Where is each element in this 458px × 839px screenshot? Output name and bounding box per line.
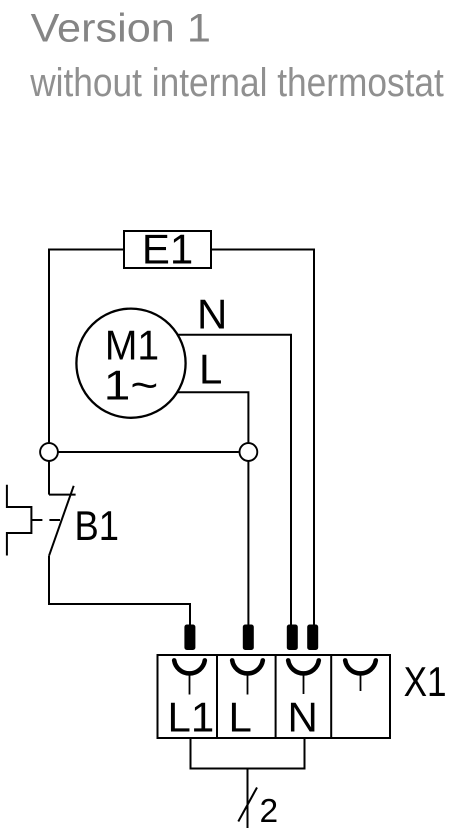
wire: bottom horizontal bbox=[190, 768, 306, 770]
svg-text:L: L bbox=[229, 694, 252, 741]
wire: cable down to edge bbox=[247, 769, 249, 829]
pin into N (from E1) bbox=[307, 625, 318, 651]
svg-text:L1: L1 bbox=[168, 694, 215, 741]
wire: motor L horizontal and down to right junction bbox=[176, 392, 248, 442]
wire: E1 right horizontal bbox=[211, 249, 314, 251]
svg-text:2: 2 bbox=[260, 793, 279, 830]
contact blade bbox=[49, 486, 74, 556]
wire from L1 down bbox=[190, 738, 192, 769]
svg-text:1~: 1~ bbox=[104, 361, 159, 408]
socket L1 bbox=[174, 660, 205, 673]
svg-text:Version 1: Version 1 bbox=[31, 6, 211, 50]
wire: left vertical (E1 to left junction) bbox=[48, 249, 50, 443]
svg-text:X1: X1 bbox=[404, 659, 447, 706]
switch B1 (NC contact) bbox=[7, 485, 76, 556]
svg-text:N: N bbox=[197, 290, 227, 337]
pin into L1 bbox=[184, 625, 195, 651]
cell divider 1 bbox=[216, 655, 218, 738]
wire: motor N horizontal and vertical down to pin 3 bbox=[176, 335, 291, 625]
connector pins (plugs) bbox=[184, 625, 318, 651]
pin into N (from motor) bbox=[287, 625, 298, 651]
socket L bbox=[232, 660, 263, 673]
fixed contact tick bbox=[49, 494, 76, 496]
cell divider 3 bbox=[330, 655, 332, 738]
socket spare bbox=[345, 660, 376, 673]
terminal socket symbols (arc + stem) bbox=[174, 660, 376, 694]
wire: right junction down to pin 2 bbox=[247, 462, 249, 626]
node: right junction circle bbox=[240, 443, 258, 461]
cell divider 2 bbox=[275, 655, 277, 738]
wire: top-left horizontal to E1 bbox=[49, 249, 124, 251]
svg-text:B1: B1 bbox=[75, 502, 119, 549]
actuator link (dashed) bbox=[31, 519, 60, 521]
wires: block bottom to common bbox=[190, 738, 306, 828]
svg-text:E1: E1 bbox=[142, 225, 193, 272]
wire: left junction down to B1 contact bbox=[48, 462, 50, 495]
heater E1 box bbox=[124, 231, 211, 268]
svg-text:without internal thermostat: without internal thermostat bbox=[29, 60, 444, 105]
svg-text:N: N bbox=[288, 694, 318, 741]
terminal block X1 bbox=[158, 655, 391, 738]
pin into L bbox=[243, 625, 254, 651]
svg-text:L: L bbox=[199, 346, 222, 393]
wire from N down bbox=[304, 738, 306, 769]
wire: right vertical (E1 to terminal pin 4) bbox=[313, 249, 315, 626]
socket N bbox=[288, 660, 319, 673]
node: left junction circle bbox=[40, 443, 58, 461]
cable count slash bbox=[238, 788, 257, 822]
actuator bracket bbox=[7, 485, 32, 556]
wire: B1 bottom to pin 1 bbox=[49, 556, 190, 625]
wire: horizontal link between junctions bbox=[59, 451, 239, 453]
motor M1 circle bbox=[76, 309, 185, 418]
